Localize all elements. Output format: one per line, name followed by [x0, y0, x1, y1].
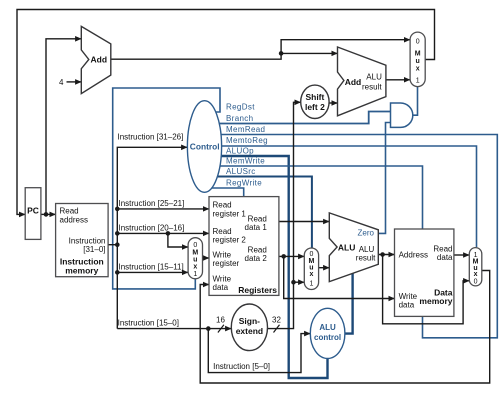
svg-text:register 1: register 1: [213, 209, 247, 218]
svg-text:memory: memory: [65, 266, 98, 276]
svg-text:MemtoReg: MemtoReg: [226, 136, 268, 145]
svg-text:32: 32: [272, 316, 281, 325]
svg-text:[31–0]: [31–0]: [83, 245, 105, 254]
svg-text:0: 0: [474, 279, 478, 286]
svg-text:u: u: [416, 58, 420, 65]
svg-text:4: 4: [59, 78, 64, 87]
svg-text:1: 1: [193, 271, 197, 278]
svg-text:16: 16: [216, 316, 225, 325]
svg-text:x: x: [416, 66, 420, 73]
svg-text:RegWrite: RegWrite: [226, 179, 262, 188]
svg-text:Add: Add: [91, 54, 108, 64]
svg-text:data: data: [213, 283, 229, 292]
svg-text:data 1: data 1: [245, 223, 268, 232]
svg-text:Add: Add: [345, 77, 362, 87]
svg-text:MemRead: MemRead: [226, 125, 265, 134]
svg-text:M: M: [415, 51, 421, 58]
svg-text:data: data: [437, 253, 453, 262]
svg-text:M: M: [192, 250, 198, 257]
svg-text:0: 0: [309, 251, 313, 258]
svg-text:memory: memory: [419, 296, 452, 306]
svg-text:Instruction [25–21]: Instruction [25–21]: [119, 199, 185, 208]
svg-text:Sign-: Sign-: [239, 316, 260, 326]
svg-text:Read: Read: [60, 207, 79, 216]
svg-text:Read: Read: [213, 201, 232, 210]
svg-text:result: result: [362, 82, 382, 91]
svg-text:Address: Address: [399, 251, 428, 260]
svg-text:MemWrite: MemWrite: [226, 157, 265, 166]
svg-text:control: control: [314, 333, 341, 342]
svg-text:x: x: [193, 264, 197, 271]
svg-text:ALUSrc: ALUSrc: [226, 167, 256, 176]
svg-text:Registers: Registers: [238, 285, 277, 295]
svg-text:ALU: ALU: [319, 323, 336, 332]
svg-text:Instruction [5–0]: Instruction [5–0]: [213, 362, 270, 371]
svg-text:register 2: register 2: [213, 236, 247, 245]
svg-text:x: x: [474, 271, 478, 278]
svg-text:ALU: ALU: [338, 243, 355, 253]
svg-text:Branch: Branch: [226, 114, 253, 123]
svg-text:x: x: [309, 271, 313, 278]
svg-text:0: 0: [193, 242, 197, 249]
svg-text:Control: Control: [190, 141, 220, 151]
svg-text:Instruction [20–16]: Instruction [20–16]: [119, 224, 185, 233]
svg-text:data 2: data 2: [245, 254, 268, 263]
svg-text:Instruction [15–0]: Instruction [15–0]: [118, 318, 179, 327]
svg-text:register: register: [213, 259, 240, 268]
svg-text:data: data: [399, 300, 415, 309]
svg-text:1: 1: [309, 281, 313, 288]
svg-text:Instruction [15–11]: Instruction [15–11]: [119, 263, 184, 272]
svg-text:left 2: left 2: [305, 102, 325, 112]
svg-text:1: 1: [416, 78, 420, 85]
svg-text:address: address: [60, 216, 88, 225]
svg-text:u: u: [193, 257, 197, 264]
svg-text:result: result: [356, 253, 376, 262]
svg-text:extend: extend: [236, 326, 263, 336]
svg-text:PC: PC: [27, 206, 39, 216]
svg-text:ALU: ALU: [366, 73, 382, 82]
svg-text:Read: Read: [213, 227, 232, 236]
svg-text:RegDst: RegDst: [226, 103, 255, 112]
svg-text:Instruction [31–26]: Instruction [31–26]: [118, 133, 184, 142]
svg-text:Shift: Shift: [305, 92, 324, 102]
svg-text:ALUOp: ALUOp: [226, 147, 254, 156]
svg-text:Zero: Zero: [358, 228, 375, 237]
svg-text:0: 0: [416, 39, 420, 46]
